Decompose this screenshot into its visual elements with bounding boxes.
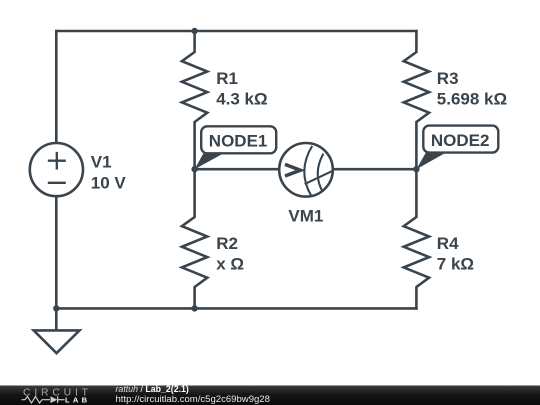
svg-text:rattuh / Lab_2(2.1): rattuh / Lab_2(2.1) [116,384,189,394]
svg-text:NODE1: NODE1 [209,132,268,151]
svg-text:4.3 kΩ: 4.3 kΩ [216,90,267,109]
svg-text:R4: R4 [437,234,459,253]
svg-text:5.698 kΩ: 5.698 kΩ [437,90,507,109]
svg-text:x Ω: x Ω [216,255,244,274]
svg-text:7 kΩ: 7 kΩ [437,255,474,274]
svg-text:V1: V1 [91,152,112,171]
svg-text:R1: R1 [216,69,238,88]
svg-text:R2: R2 [216,234,238,253]
svg-text:LAB: LAB [65,396,88,405]
svg-text:NODE2: NODE2 [431,131,490,150]
svg-text:http://circuitlab.com/c5g2c69b: http://circuitlab.com/c5g2c69bw9g28 [116,394,270,405]
svg-text:R3: R3 [437,69,459,88]
svg-text:VM1: VM1 [288,206,323,225]
svg-text:10 V: 10 V [91,174,127,193]
